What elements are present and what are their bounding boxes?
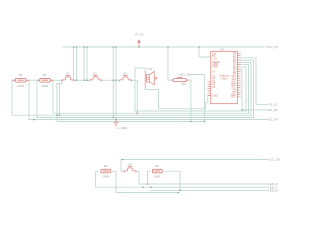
svg-text:R1: R1	[19, 73, 23, 77]
svg-text:22k: 22k	[181, 82, 186, 86]
svg-text:100R: 100R	[17, 84, 24, 88]
svg-text:R4: R4	[104, 164, 108, 168]
svg-text:LED_B: LED_B	[268, 188, 277, 192]
svg-text:PWM: PWM	[212, 66, 218, 68]
svg-text:KEY_A1: KEY_A1	[179, 72, 190, 76]
svg-text:S4: S4	[128, 162, 132, 166]
svg-text:VT_5V: VT_5V	[135, 33, 145, 37]
svg-text:100R: 100R	[154, 175, 161, 179]
svg-text:VCC_5V: VCC_5V	[268, 158, 281, 162]
svg-text:VCC_5V: VCC_5V	[266, 45, 279, 49]
svg-text:TX_D1: TX_D1	[268, 102, 277, 106]
svg-text:U3: U3	[220, 47, 224, 51]
svg-text:UNO: UNO	[221, 77, 228, 81]
svg-text:R5: R5	[155, 164, 159, 168]
svg-text:GND: GND	[212, 95, 217, 97]
svg-text:RX_D0: RX_D0	[268, 108, 278, 112]
svg-text:100R: 100R	[41, 84, 48, 88]
svg-text:R2: R2	[43, 73, 47, 77]
svg-text:100R: 100R	[102, 175, 109, 179]
svg-text:S1: S1	[66, 71, 70, 75]
svg-text:S3: S3	[123, 71, 127, 75]
svg-text:LS1: LS1	[148, 67, 153, 71]
svg-text:G_GND: G_GND	[117, 126, 127, 130]
svg-text:D2_INT: D2_INT	[268, 118, 278, 122]
svg-text:S2: S2	[93, 71, 97, 75]
svg-text:3.3V: 3.3V	[212, 58, 217, 60]
svg-text:VCC: VCC	[231, 97, 236, 99]
